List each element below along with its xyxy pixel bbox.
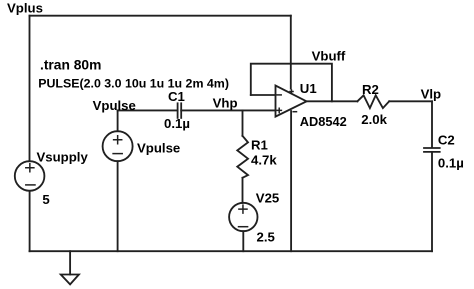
svg-text:5: 5 bbox=[42, 192, 49, 207]
svg-text:2.0k: 2.0k bbox=[361, 112, 387, 127]
svg-text:V25: V25 bbox=[256, 191, 279, 206]
svg-text:Vbuff: Vbuff bbox=[312, 48, 346, 63]
svg-text:Vlp: Vlp bbox=[421, 87, 442, 102]
svg-text:.tran 80m: .tran 80m bbox=[40, 58, 101, 73]
svg-text:Vpulse: Vpulse bbox=[137, 141, 180, 156]
svg-text:C1: C1 bbox=[168, 89, 185, 104]
svg-text:PULSE(2.0 3.0 10u 1u 1u 2m 4m): PULSE(2.0 3.0 10u 1u 1u 2m 4m) bbox=[38, 77, 229, 91]
svg-text:0.1µ: 0.1µ bbox=[164, 116, 190, 131]
svg-text:0.1µ: 0.1µ bbox=[438, 155, 464, 170]
svg-text:AD8542: AD8542 bbox=[300, 114, 347, 129]
svg-text:Vplus: Vplus bbox=[7, 1, 43, 16]
svg-text:U1: U1 bbox=[300, 81, 317, 96]
svg-text:4.7k: 4.7k bbox=[251, 153, 277, 168]
svg-text:2.5: 2.5 bbox=[257, 230, 275, 245]
svg-text:R2: R2 bbox=[362, 82, 379, 97]
svg-text:C2: C2 bbox=[438, 133, 455, 148]
svg-text:Vsupply: Vsupply bbox=[37, 150, 89, 165]
svg-text:Vhp: Vhp bbox=[213, 95, 238, 110]
svg-text:R1: R1 bbox=[251, 138, 268, 153]
svg-text:Vpulse: Vpulse bbox=[93, 98, 136, 113]
